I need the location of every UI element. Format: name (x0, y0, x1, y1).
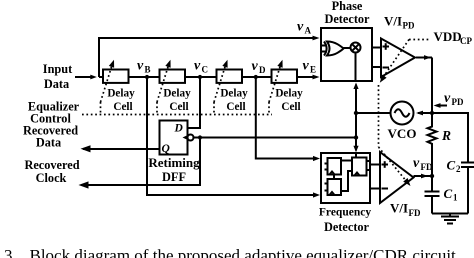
svg-text:v: v (303, 59, 310, 74)
svg-text:C: C (444, 186, 453, 201)
svg-text:D: D (259, 65, 266, 75)
svg-text:R: R (441, 128, 451, 143)
svg-text:v: v (252, 59, 259, 74)
svg-text:Cell: Cell (281, 101, 300, 113)
svg-text:E: E (310, 65, 316, 75)
svg-text:v: v (444, 91, 451, 106)
svg-text:v: v (413, 156, 420, 171)
svg-text:B: B (145, 65, 151, 75)
svg-text:Frequency: Frequency (319, 206, 371, 218)
svg-text:Delay: Delay (163, 88, 191, 100)
svg-text:FD: FD (421, 162, 433, 172)
svg-text:1: 1 (453, 193, 458, 203)
svg-text:PD: PD (403, 21, 415, 31)
svg-text:VDD: VDD (434, 29, 462, 44)
svg-text:Recovered: Recovered (24, 158, 79, 172)
svg-text:Delay: Delay (107, 88, 135, 100)
svg-text:Data: Data (36, 136, 61, 150)
svg-text:v: v (194, 59, 201, 74)
svg-text:PD: PD (452, 97, 464, 107)
svg-text:Cell: Cell (113, 101, 132, 113)
svg-text:Data: Data (44, 77, 69, 91)
svg-text:Detector: Detector (324, 220, 370, 234)
svg-text:A: A (305, 26, 312, 36)
svg-text:v: v (297, 20, 304, 35)
svg-text:Detector: Detector (324, 12, 370, 26)
svg-text:C: C (447, 158, 456, 173)
svg-text:VCO: VCO (388, 126, 417, 141)
svg-text:V/I: V/I (384, 14, 402, 29)
svg-text:Delay: Delay (275, 88, 303, 100)
svg-text:CP: CP (460, 36, 472, 46)
svg-text:FD: FD (409, 208, 421, 218)
svg-text:3. Block diagram of the prop: 3. Block diagram of the proposed adaptiv… (4, 246, 460, 258)
svg-text:DFF: DFF (162, 170, 186, 184)
svg-text:V/I: V/I (390, 201, 408, 216)
svg-text:Clock: Clock (36, 171, 67, 185)
svg-text:v: v (137, 59, 144, 74)
svg-text:Retiming: Retiming (148, 155, 200, 170)
svg-text:Input: Input (43, 62, 73, 76)
svg-text:D: D (174, 123, 184, 135)
svg-text:C: C (202, 65, 209, 75)
svg-text:Cell: Cell (169, 101, 188, 113)
svg-text:Cell: Cell (226, 101, 245, 113)
svg-text:Q: Q (162, 143, 170, 155)
svg-text:Delay: Delay (220, 88, 248, 100)
svg-text:2: 2 (456, 164, 461, 174)
